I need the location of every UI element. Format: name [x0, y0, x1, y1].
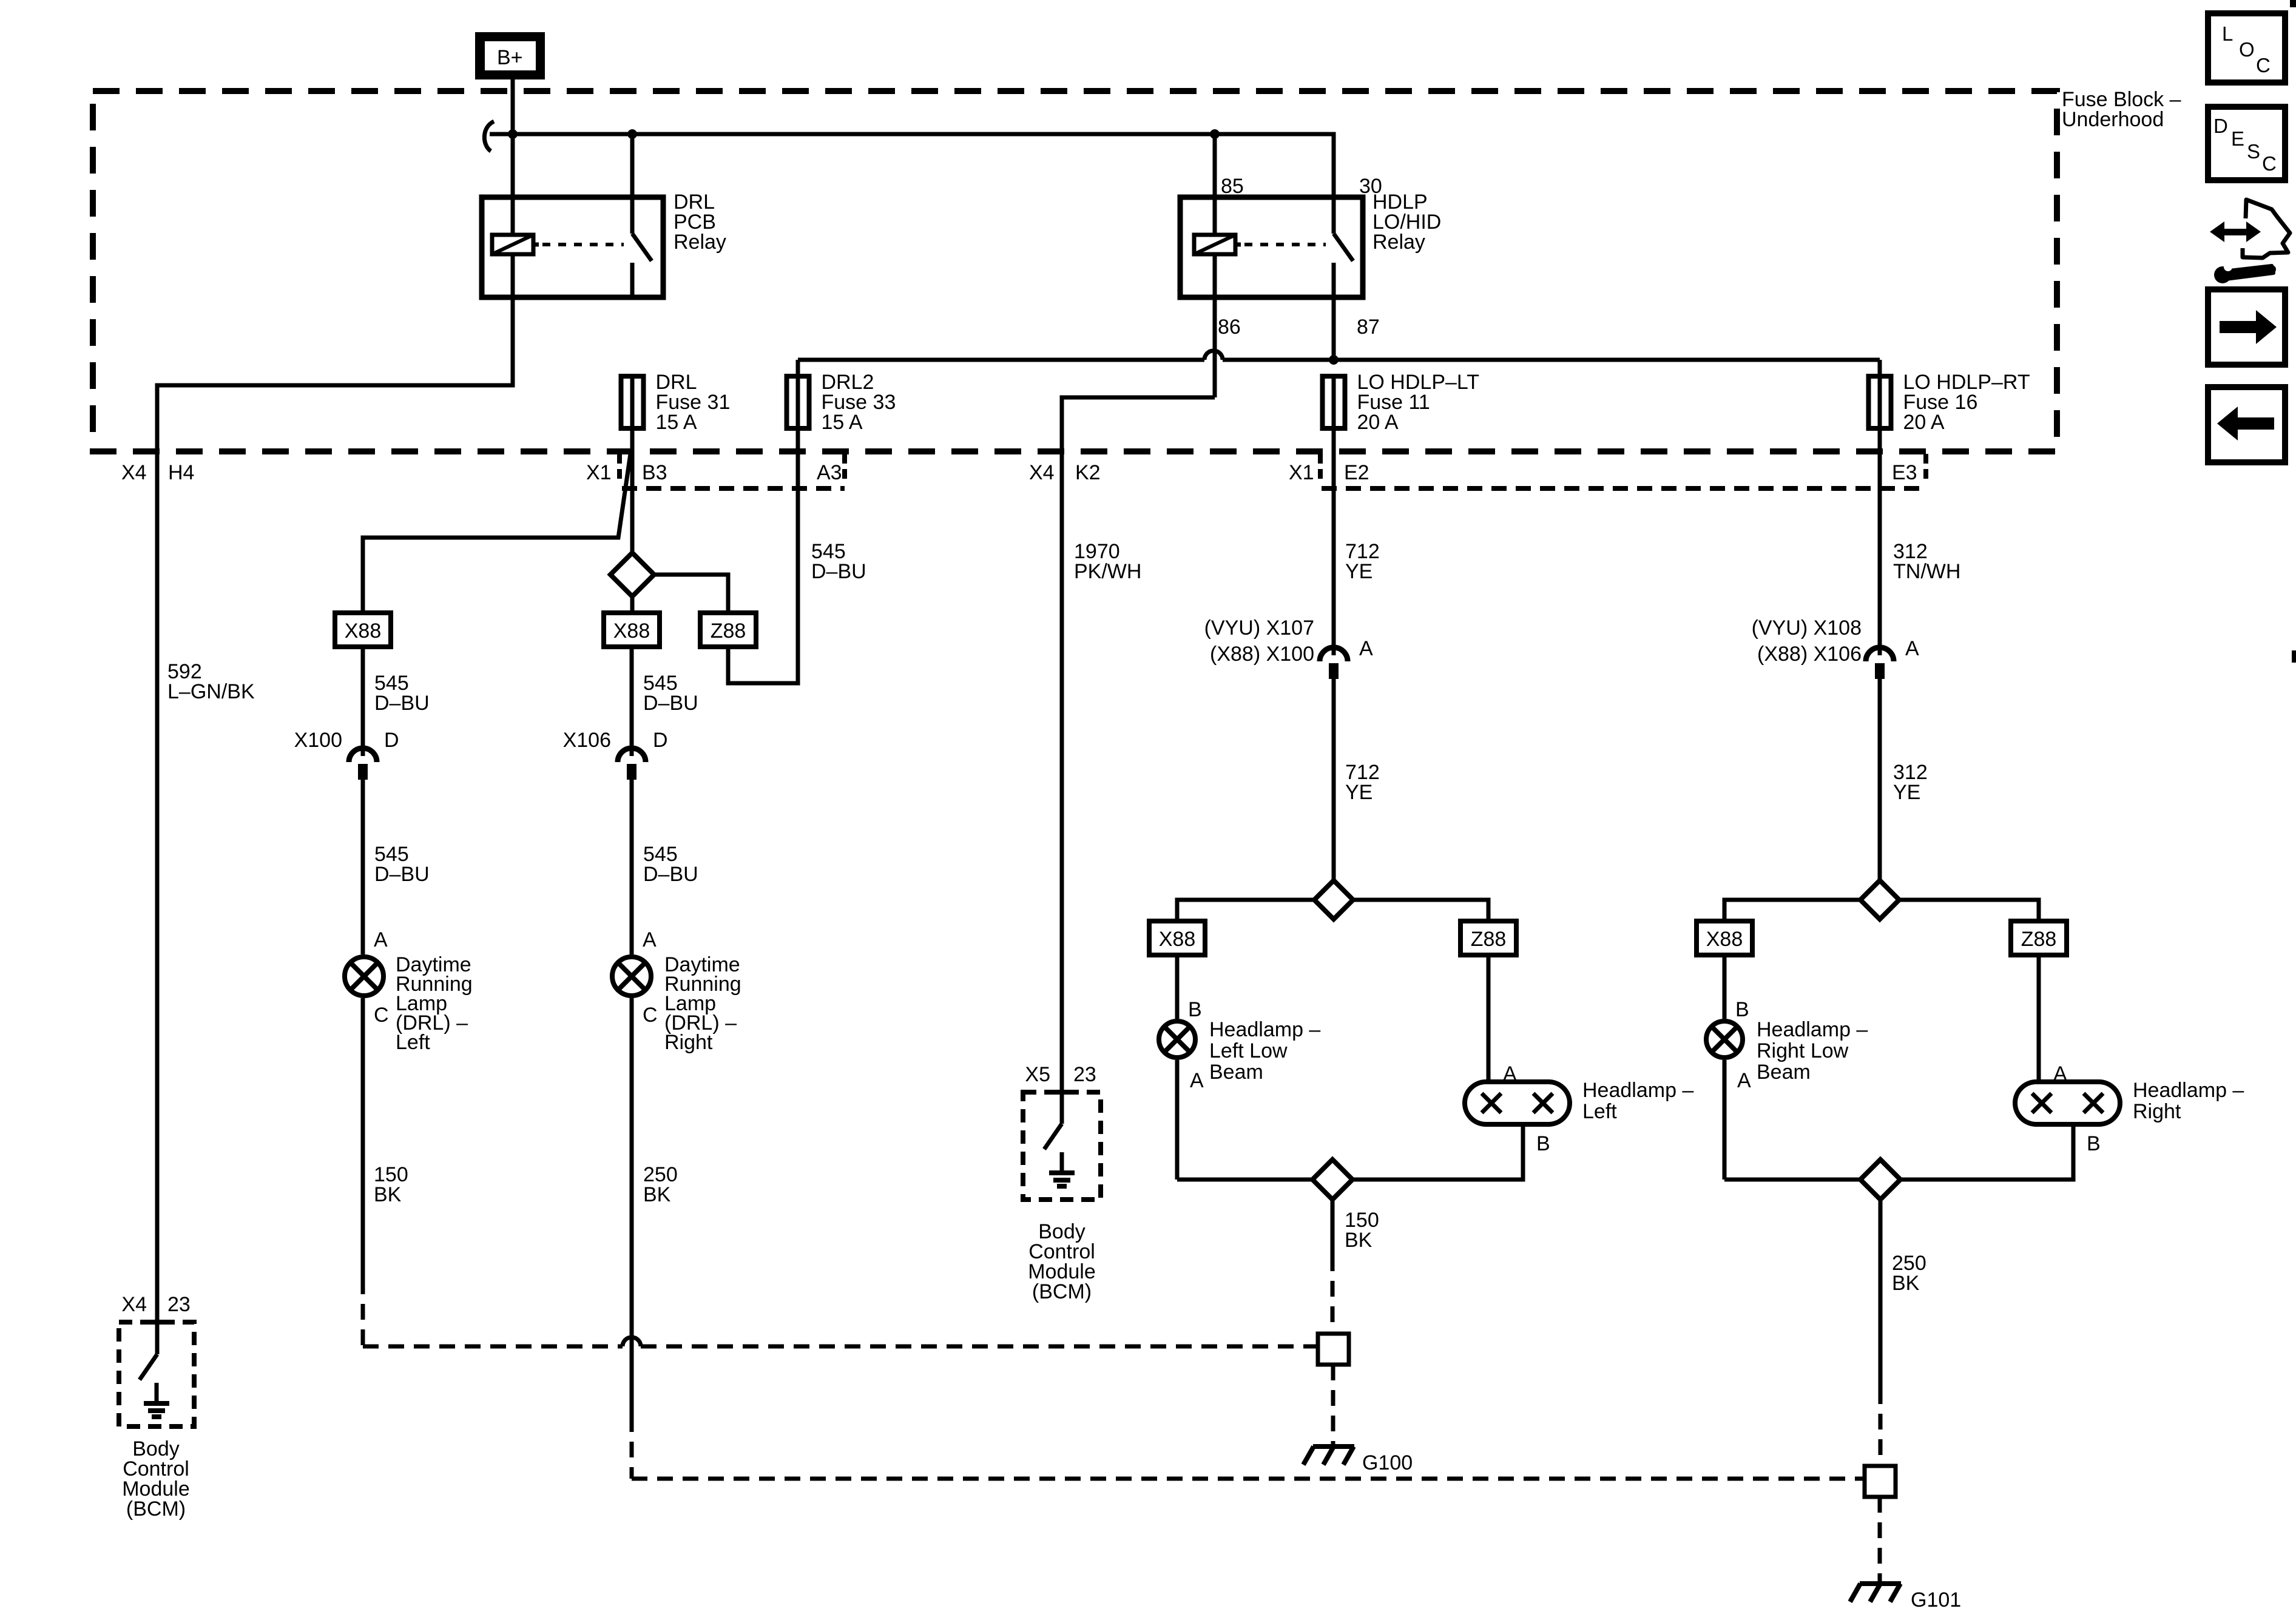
label G100: [1362, 1451, 1413, 1474]
svg-text:G100: G100: [1362, 1451, 1413, 1474]
connector X107: [1320, 643, 1348, 679]
svg-text:X1: X1: [1289, 461, 1314, 484]
svg-text:Right: Right: [664, 1031, 713, 1054]
label 150 BK left DRL: [374, 1163, 408, 1206]
svg-text:30: 30: [1359, 175, 1382, 198]
svg-text:YE: YE: [1345, 781, 1373, 804]
inline square G100: [1318, 1334, 1349, 1365]
svg-text:15 A: 15 A: [656, 411, 697, 434]
pin 86: [1218, 316, 1241, 339]
splice diamond RT: [1860, 880, 1899, 919]
fuse block underhood dashed box: [93, 91, 2057, 451]
svg-text:B: B: [1536, 1132, 1550, 1155]
connector X88 left: [335, 613, 391, 647]
label 545 D-BU left lower: [374, 843, 430, 886]
svg-text:87: 87: [1357, 316, 1380, 339]
wire bus to fuse33: [796, 360, 800, 374]
node junction DRL30: [627, 129, 637, 139]
label Daytime Running Lamp DRL Right: [664, 953, 741, 1054]
label X4 H4: [121, 461, 194, 484]
label HDLP LO/HID Relay: [1373, 191, 1441, 254]
label 592 L-GN/BK: [167, 660, 255, 703]
svg-text:A: A: [374, 928, 388, 951]
sep A3: [842, 454, 847, 479]
label 545 D-BU mid upper: [643, 672, 698, 715]
wire bus: [798, 351, 1880, 360]
label B RT: [1735, 998, 1749, 1021]
dashed ground line left: [363, 1337, 1318, 1346]
svg-text:(X88) X106: (X88) X106: [1757, 643, 1862, 666]
inline square G101: [1865, 1466, 1896, 1497]
svg-text:S: S: [2247, 140, 2260, 163]
ground G100: [1303, 1447, 1354, 1465]
svg-text:D: D: [2213, 115, 2228, 137]
svg-text:A3: A3: [817, 461, 842, 484]
relay HDLP box: [1180, 197, 1363, 297]
svg-text:A: A: [643, 928, 657, 951]
connector row line E2-E3: [1322, 486, 1923, 491]
label C left DRL: [374, 1004, 389, 1027]
wire bus to fuse16: [1878, 360, 1882, 374]
wire B+ down: [511, 79, 515, 197]
ground G101: [1850, 1584, 1901, 1602]
svg-text:Z88: Z88: [2021, 928, 2057, 951]
wire B3 down: [630, 431, 635, 553]
label 312 YE lower: [1893, 761, 1928, 804]
label VYU X108: [1752, 616, 1862, 666]
bulb headlamp left: [1465, 1082, 1570, 1124]
wire pin86 to K2: [1062, 397, 1215, 1092]
svg-text:Left: Left: [1582, 1100, 1617, 1123]
svg-text:L–GN/BK: L–GN/BK: [167, 680, 255, 703]
fuse DRL2 Fuse33: [787, 371, 896, 434]
BCM mid ground: [1049, 1152, 1075, 1186]
wire diamond to X88 mid: [630, 596, 635, 613]
BCM left ground: [144, 1383, 169, 1417]
svg-text:X88: X88: [1706, 928, 1743, 951]
svg-text:15 A: 15 A: [822, 411, 863, 434]
splice diamond fuse31: [610, 553, 654, 596]
icon DESC box: [2208, 107, 2285, 180]
svg-text:Relay: Relay: [1373, 231, 1425, 254]
label X5 23 mid BCM: [1025, 1063, 1096, 1086]
svg-text:B: B: [1188, 998, 1202, 1021]
svg-text:Right Low: Right Low: [1757, 1039, 1849, 1062]
wire HDLP pin85 drop: [1213, 134, 1217, 197]
lamp headlamp left low: [1159, 1021, 1195, 1058]
svg-text:23: 23: [1073, 1063, 1096, 1086]
splice diamond LT bottom: [1312, 1160, 1352, 1200]
node junction B+ rail: [508, 129, 518, 139]
svg-text:O: O: [2239, 38, 2255, 61]
wire square to G101: [1878, 1497, 1882, 1582]
wire RT bottom down: [1879, 1200, 1883, 1388]
BCM mid switch: [1044, 1092, 1062, 1149]
wire DRL left down: [361, 998, 365, 1278]
pin 30: [1359, 175, 1382, 198]
label X4 K2: [1029, 461, 1101, 484]
svg-text:Headlamp –: Headlamp –: [1209, 1018, 1320, 1041]
svg-text:BK: BK: [1892, 1272, 1920, 1295]
icon vehicle wrench: [2210, 200, 2290, 283]
svg-text:D–BU: D–BU: [374, 692, 430, 715]
svg-text:TN/WH: TN/WH: [1893, 560, 1960, 583]
bulb headlamp right: [2015, 1082, 2120, 1124]
label Daytime Running Lamp DRL Left: [396, 953, 473, 1054]
wire lamp to diamond bottom LT: [1177, 1178, 1312, 1182]
label A LT: [1190, 1069, 1204, 1092]
sep E2: [1318, 454, 1323, 479]
svg-text:D–BU: D–BU: [374, 863, 430, 886]
sep E3: [1923, 454, 1928, 479]
label 312 TN/WH: [1893, 540, 1960, 583]
svg-text:(BCM): (BCM): [1032, 1280, 1092, 1303]
svg-text:X88: X88: [345, 619, 382, 643]
svg-text:(VYU) X108: (VYU) X108: [1752, 616, 1862, 640]
connector Z88 mid: [700, 613, 756, 647]
svg-text:Beam: Beam: [1757, 1061, 1811, 1084]
svg-text:20 A: 20 A: [1903, 411, 1945, 434]
svg-text:H4: H4: [168, 461, 194, 484]
label A RT: [1737, 1069, 1751, 1092]
wire bulb right B: [1900, 1124, 2073, 1180]
svg-text:(X88) X100: (X88) X100: [1210, 643, 1314, 666]
node junction HDLP85: [1210, 129, 1220, 139]
icon arrow right box: [2208, 289, 2285, 365]
wire X88L to X100: [361, 647, 365, 745]
svg-text:A: A: [1190, 1069, 1204, 1092]
svg-text:X88: X88: [1159, 928, 1196, 951]
pin 87: [1357, 316, 1380, 339]
relay DRL switch: [632, 197, 652, 297]
label Headlamp Right: [2133, 1079, 2244, 1123]
svg-text:E: E: [2231, 127, 2244, 150]
svg-text:Relay: Relay: [674, 231, 726, 254]
label 150 BK LT: [1345, 1209, 1379, 1252]
pin 85: [1221, 175, 1244, 198]
svg-text:K2: K2: [1075, 461, 1101, 484]
svg-text:B3: B3: [642, 461, 667, 484]
icon LOC box: [2208, 13, 2285, 83]
svg-text:E2: E2: [1344, 461, 1369, 484]
svg-text:Headlamp –: Headlamp –: [1757, 1018, 1868, 1041]
svg-text:D–BU: D–BU: [643, 863, 698, 886]
label X4 23 left BCM: [121, 1293, 190, 1316]
svg-text:BK: BK: [374, 1183, 402, 1206]
svg-text:D–BU: D–BU: [643, 692, 698, 715]
icon arrow left box: [2208, 387, 2285, 462]
label E3: [1892, 461, 1917, 484]
wire LT bottom down: [1331, 1200, 1335, 1255]
label X100 D: [294, 729, 399, 752]
connector X88 RT: [1697, 921, 1752, 955]
svg-text:B+: B+: [497, 46, 523, 69]
wire Z88LT to bulb: [1487, 955, 1491, 1082]
fuse DRL Fuse31: [621, 371, 731, 434]
label A conn left: [1359, 637, 1373, 660]
wire RT to X88: [1724, 900, 1860, 921]
label Headlamp Left: [1582, 1079, 1693, 1123]
wire diamond to Z88: [654, 575, 728, 613]
label A bulb left: [1503, 1062, 1517, 1085]
wire bulb left B: [1352, 1124, 1523, 1180]
svg-text:85: 85: [1221, 175, 1244, 198]
label 712 YE upper: [1345, 540, 1380, 583]
lamp headlamp right low: [1706, 1021, 1743, 1058]
wire X88M to X106: [630, 647, 634, 745]
svg-text:X5: X5: [1025, 1063, 1050, 1086]
wire DRL pin30 drop: [630, 134, 635, 197]
label 545 D-BU mid lower: [643, 843, 698, 886]
wire X88LT to lamp: [1175, 955, 1180, 1019]
lamp DRL right: [612, 957, 651, 996]
wire A3 down: [728, 431, 798, 683]
svg-text:X1: X1: [586, 461, 612, 484]
relay HDLP switch: [1334, 197, 1353, 297]
label B bulb right: [2087, 1132, 2101, 1155]
svg-text:Left: Left: [396, 1031, 430, 1054]
wire E2 down: [1332, 431, 1336, 644]
relay DRL PCB box: [482, 197, 663, 297]
svg-text:C: C: [2262, 152, 2277, 175]
svg-text:Right: Right: [2133, 1100, 2181, 1123]
wire Z88RT to bulb: [2037, 955, 2041, 1082]
svg-text:C: C: [2256, 54, 2271, 76]
wire X108 to diamond: [1878, 678, 1882, 880]
wire X106 to lamp: [630, 778, 634, 954]
svg-text:B: B: [1735, 998, 1749, 1021]
connector Z88 RT: [2011, 921, 2067, 955]
wire RT bottom dashed: [1879, 1388, 1883, 1466]
lamp DRL left: [345, 957, 383, 996]
connector row line B3-A3: [622, 486, 845, 491]
wire 592 LGN/BK: [157, 297, 513, 1323]
connector X88 LT: [1149, 921, 1205, 955]
label C mid DRL: [643, 1004, 658, 1027]
label 545 D-BU left upper: [374, 672, 430, 715]
wire X107 to diamond: [1332, 678, 1336, 880]
BCM left switch: [140, 1323, 157, 1380]
connector X100: [349, 744, 377, 780]
label Headlamp Right Low Beam: [1757, 1018, 1868, 1084]
label X106 D: [563, 729, 668, 752]
svg-text:X4: X4: [1029, 461, 1055, 484]
svg-text:X4: X4: [121, 461, 147, 484]
svg-text:X88: X88: [613, 619, 650, 643]
wire E3 down: [1878, 431, 1882, 644]
label B bulb left: [1536, 1132, 1550, 1155]
label G101: [1911, 1588, 1961, 1612]
svg-text:PK/WH: PK/WH: [1074, 560, 1141, 583]
svg-text:D–BU: D–BU: [811, 560, 866, 583]
svg-text:C: C: [374, 1004, 389, 1027]
svg-text:Z88: Z88: [711, 619, 746, 643]
wire pin86 down with hop: [1213, 297, 1217, 397]
wire lamp LT down: [1175, 1060, 1180, 1180]
node junction pin87 bus: [1329, 355, 1339, 365]
svg-text:Headlamp –: Headlamp –: [2133, 1079, 2244, 1102]
svg-text:G101: G101: [1911, 1588, 1961, 1612]
svg-text:Z88: Z88: [1471, 928, 1507, 951]
svg-text:D: D: [653, 729, 668, 752]
connector X88 mid: [604, 613, 660, 647]
svg-text:Underhood: Underhood: [2062, 108, 2164, 131]
BCM left tick: [146, 1320, 168, 1325]
connector X106: [618, 744, 646, 780]
wire DRL right down: [630, 998, 634, 1479]
sep B3: [617, 454, 622, 479]
svg-text:YE: YE: [1893, 781, 1920, 804]
label DRL PCB Relay: [674, 191, 726, 254]
connector X108: [1866, 643, 1894, 679]
BCM mid box: [1023, 1092, 1101, 1200]
svg-text:D: D: [384, 729, 399, 752]
label 545 D-BU A3: [811, 540, 866, 583]
svg-text:A: A: [1359, 637, 1373, 660]
wire DRL left dashed: [361, 1278, 365, 1346]
wire lamp RT down: [1723, 1060, 1727, 1180]
svg-text:Headlamp –: Headlamp –: [1582, 1079, 1693, 1102]
splice diamond RT bottom: [1860, 1160, 1900, 1200]
svg-text:YE: YE: [1345, 560, 1373, 583]
relay DRL coil: [492, 197, 533, 297]
label VYU X107: [1204, 616, 1314, 666]
svg-text:C: C: [643, 1004, 658, 1027]
svg-text:BK: BK: [1345, 1229, 1373, 1252]
svg-text:23: 23: [167, 1293, 191, 1316]
relay HDLP coil: [1194, 197, 1235, 297]
wire X100 to lamp: [361, 778, 365, 954]
label 250 BK RT: [1892, 1252, 1926, 1295]
wire pin87 to bus: [1332, 297, 1336, 360]
splice curl: [484, 121, 494, 151]
svg-text:X100: X100: [294, 729, 342, 752]
label 250 BK mid DRL: [643, 1163, 678, 1206]
relay DRL dashed link: [533, 243, 624, 247]
dashed ground line right: [632, 1477, 1865, 1481]
label 712 YE lower: [1345, 761, 1380, 804]
svg-text:20 A: 20 A: [1357, 411, 1399, 434]
wire LT to Z88: [1353, 900, 1488, 921]
label 1970 PK/WH: [1074, 540, 1141, 583]
wire branch slant to left DRL: [363, 454, 630, 613]
label Body Control Module BCM mid: [1028, 1220, 1096, 1303]
label A3: [817, 461, 842, 484]
svg-text:Left Low: Left Low: [1209, 1039, 1288, 1062]
svg-text:A: A: [1737, 1069, 1751, 1092]
label Body Control Module BCM left: [122, 1437, 190, 1521]
label X1 B3: [586, 461, 667, 484]
label A bulb right: [2053, 1062, 2067, 1085]
svg-text:A: A: [1905, 637, 1919, 660]
label Headlamp Left Low Beam: [1209, 1018, 1320, 1084]
svg-text:BK: BK: [643, 1183, 671, 1206]
wire X88RT to lamp: [1723, 955, 1727, 1019]
connector Z88 LT: [1460, 921, 1516, 955]
svg-text:E3: E3: [1892, 461, 1917, 484]
svg-text:X106: X106: [563, 729, 611, 752]
label A conn right: [1905, 637, 1919, 660]
wire lamp to diamond bottom RT: [1724, 1178, 1860, 1182]
wire LT bottom dashed: [1331, 1255, 1335, 1334]
wire top rail: [490, 134, 1334, 197]
label X1 E2: [1289, 461, 1369, 484]
BCM left box: [119, 1322, 194, 1426]
wire LT to X88: [1177, 900, 1314, 921]
B+ terminal box: [475, 32, 545, 79]
svg-text:86: 86: [1218, 316, 1241, 339]
label B LT: [1188, 998, 1202, 1021]
page edge marks: [2290, 0, 2296, 663]
wire RT to Z88: [1899, 900, 2039, 921]
wire square to G100: [1331, 1365, 1335, 1445]
svg-text:Beam: Beam: [1209, 1061, 1263, 1084]
svg-text:B: B: [2087, 1132, 2101, 1155]
svg-text:(BCM): (BCM): [126, 1497, 186, 1521]
svg-text:L: L: [2222, 22, 2233, 45]
BCM mid tick: [1051, 1090, 1073, 1095]
label A left DRL: [374, 928, 388, 951]
svg-text:X4: X4: [121, 1293, 147, 1316]
relay HDLP dashed link: [1235, 243, 1326, 247]
label Fuse Block - Underhood: [2062, 88, 2181, 131]
fuse LO HDLP-LT Fuse11: [1323, 371, 1480, 434]
label A mid DRL: [643, 928, 657, 951]
fuse LO HDLP-RT Fuse16: [1869, 371, 2030, 434]
svg-text:(VYU) X107: (VYU) X107: [1204, 616, 1314, 640]
splice diamond LT: [1314, 880, 1353, 919]
